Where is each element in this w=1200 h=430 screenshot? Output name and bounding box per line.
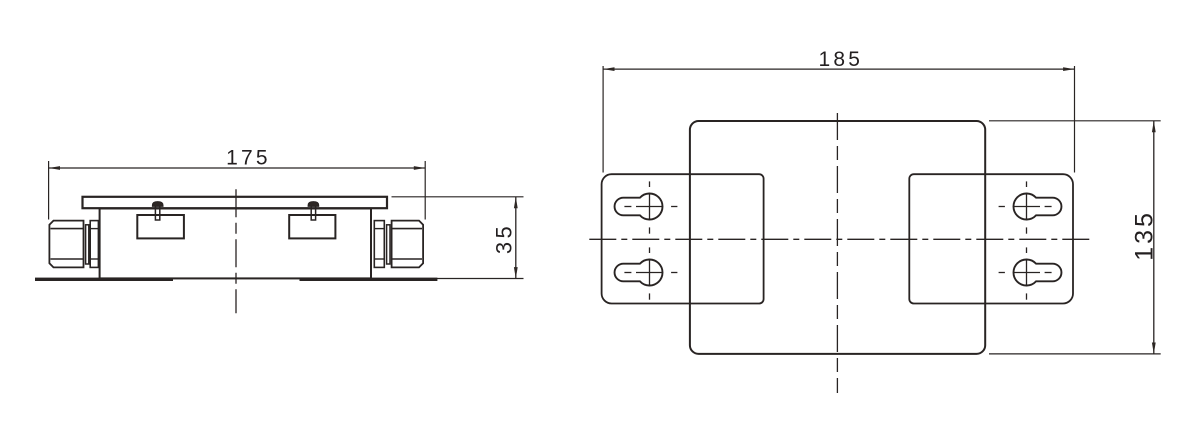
left connector: nut lower flat line [51, 258, 84, 260]
right connector: washer inner line top [374, 228, 384, 230]
screw right: shank [311, 206, 315, 220]
dimension 175: left arrowhead [49, 166, 60, 170]
right connector: thin spacer ring [387, 225, 390, 264]
right view: horizontal center line [589, 238, 1093, 240]
dimension 175: right extension line [424, 161, 426, 220]
dimension 135: dimension line [1153, 121, 1155, 354]
terminal block left [137, 215, 184, 238]
dimension 135: bottom extension line [989, 353, 1161, 355]
dimension 35: bottom arrowhead [514, 267, 518, 278]
svg-text:175: 175 [226, 147, 271, 170]
right view: left mounting flange [602, 174, 764, 303]
dimension 185: left extension line [602, 66, 604, 173]
left view: thick base segment left [35, 278, 173, 281]
left view: top mounting plate (flange seen edge-on) [83, 197, 388, 208]
right view: vertical center line [836, 113, 838, 393]
left connector: hex nut body [49, 221, 83, 268]
right connector: washer plate [374, 221, 384, 268]
left view: filter body outline [100, 209, 371, 279]
dimension 185: right extension line [1074, 66, 1076, 173]
dimension 35: dimension line [515, 197, 517, 279]
keyhole lower-left cross lines [624, 247, 677, 299]
keyhole upper-right cross lines [999, 181, 1052, 233]
keyhole slot upper-left [615, 194, 663, 220]
left connector: nut upper flat line [51, 228, 84, 230]
svg-text:35: 35 [491, 223, 516, 254]
left view: thick base segment right [300, 278, 438, 281]
screw left: head [152, 202, 163, 207]
dimension 35: top arrowhead [514, 197, 518, 208]
left connector: washer inner line top [90, 228, 98, 230]
dimension 35: top extension line [392, 196, 524, 198]
keyhole slot lower-left [615, 260, 663, 286]
dimension 175: dimension line [49, 167, 426, 169]
left connector: washer inner line bottom [90, 258, 98, 260]
dimension 185: right arrowhead [1063, 67, 1074, 71]
keyhole upper-left cross lines [624, 181, 677, 233]
svg-text:135: 135 [1130, 210, 1158, 261]
screw left: shank [155, 206, 159, 220]
left connector: thin spacer ring [86, 225, 89, 264]
left view: bottom base line (thin full) [35, 278, 524, 280]
keyhole slot upper-right [1013, 194, 1061, 220]
dimension 175: left extension line [48, 161, 50, 220]
dimension 135: top extension line [989, 120, 1161, 122]
right connector: nut lower flat line [392, 258, 422, 260]
keyhole slot lower-right [1013, 260, 1061, 286]
dimension 185: dimension line [603, 68, 1074, 70]
svg-text:185: 185 [818, 48, 863, 71]
right connector: hex nut body [392, 221, 424, 268]
terminal block right [289, 215, 335, 238]
dimension 175: right arrowhead [414, 166, 425, 170]
dimension 135: top arrowhead [1152, 121, 1156, 132]
left view: vertical center line [235, 189, 237, 313]
right connector: washer inner line bottom [374, 258, 384, 260]
screw right: head [308, 202, 319, 207]
right view: main body rounded rectangle [690, 121, 985, 354]
left connector: washer plate [90, 221, 98, 268]
keyhole lower-right cross lines [999, 247, 1052, 299]
right connector: nut upper flat line [392, 228, 422, 230]
dimension 135: bottom arrowhead [1152, 343, 1156, 354]
right view: right mounting flange [909, 174, 1073, 303]
dimension 185: left arrowhead [603, 67, 614, 71]
